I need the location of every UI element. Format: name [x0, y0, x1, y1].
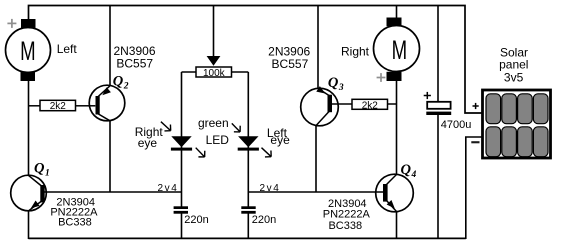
polarity + of left motor — [7, 19, 16, 28]
svg-text:panel: panel — [499, 58, 528, 72]
wire Q3 collector to right 2v4 node — [315, 126, 317, 192]
transistor Q2 2N3906 PNP — [89, 85, 125, 121]
capacitor C3 4700u electrolytic — [426, 102, 471, 131]
svg-text:eye: eye — [270, 133, 290, 147]
wire C1 to ground rail — [181, 212, 183, 239]
svg-text:BC557: BC557 — [272, 57, 309, 71]
wire Q2 emitter to top rail — [109, 6, 111, 87]
svg-text:PN2222A: PN2222A — [323, 209, 371, 221]
motor M1 left — [6, 19, 51, 81]
wire top supply rail (V+ from solar panel) — [29, 6, 482, 114]
wire C3 negative lead to ground rail — [437, 115, 439, 239]
svg-text:2k2: 2k2 — [362, 100, 379, 111]
wire Q3 emitter to top rail — [317, 6, 319, 89]
svg-text:Q: Q — [113, 74, 124, 90]
svg-text:220n: 220n — [184, 214, 208, 226]
svg-text:Right: Right — [341, 44, 370, 58]
svg-text:M: M — [392, 35, 408, 65]
svg-text:Q: Q — [34, 161, 45, 177]
svg-text:4: 4 — [411, 170, 417, 180]
svg-text:100k: 100k — [203, 68, 226, 79]
wire Q4 emitter to ground rail — [396, 212, 398, 239]
light arrows at LED D2 — [229, 120, 275, 160]
svg-text:1: 1 — [45, 169, 50, 179]
svg-text:220n: 220n — [252, 214, 276, 226]
wire Q2 collector to left 2v4 node — [109, 121, 111, 192]
polarity + of solar panel — [473, 103, 479, 109]
wire right motor positive to top rail — [396, 6, 398, 19]
transistor Q1 2N3904 NPN — [11, 175, 47, 211]
wire bottom ground rail — [29, 237, 466, 239]
light arrows at LED D1 — [158, 118, 208, 160]
polarity + of right motor — [377, 73, 386, 82]
polarity + of capacitor C3 — [424, 92, 431, 99]
transistor Q4 2N3904 NPN — [376, 174, 414, 212]
svg-text:green: green — [198, 116, 229, 130]
svg-text:2k2: 2k2 — [50, 101, 67, 112]
svg-text:Q: Q — [328, 75, 339, 91]
wire capacitor C3 positive lead to top rail — [437, 6, 439, 102]
potentiometer 100k — [182, 67, 249, 79]
wire solar panel negative to ground rail — [466, 137, 482, 239]
svg-text:3: 3 — [338, 83, 344, 93]
LED D2 (left eye) — [238, 136, 259, 150]
wire pot wiper from top rail — [213, 6, 215, 58]
transistor Q3 2N3906 PNP — [301, 86, 339, 126]
resistor R1 2k2 left — [29, 100, 90, 112]
svg-text:Left: Left — [57, 42, 78, 56]
svg-text:BC557: BC557 — [116, 56, 153, 70]
LED D1 (right eye) — [171, 136, 192, 150]
resistor R2 2k2 right — [339, 99, 397, 111]
wire right 2v4 node (D2 cathode - Q3 collector - Q4 base) — [248, 191, 384, 193]
capacitor C2 220n — [241, 206, 276, 226]
wire Q1 emitter to ground rail — [28, 211, 30, 239]
solar panel PV1 — [483, 90, 551, 158]
motor M2 right — [374, 18, 420, 82]
wire right motor negative to Q4 collector — [396, 81, 398, 175]
wire left motor to Q1 collector — [28, 81, 30, 175]
svg-text:2v4: 2v4 — [158, 183, 179, 194]
svg-text:eye: eye — [138, 136, 158, 150]
svg-text:4700u: 4700u — [441, 119, 472, 131]
svg-text:BC338: BC338 — [58, 216, 92, 228]
svg-text:3v5: 3v5 — [504, 71, 524, 85]
svg-text:2: 2 — [123, 82, 129, 92]
svg-text:BC338: BC338 — [328, 220, 362, 232]
capacitor C1 220n — [174, 206, 209, 226]
polarity - of solar panel — [471, 141, 479, 143]
svg-text:M: M — [20, 36, 35, 66]
svg-text:Q: Q — [401, 162, 412, 178]
wire C2 to ground rail — [247, 212, 249, 239]
svg-text:2v4: 2v4 — [260, 183, 281, 194]
svg-text:LED: LED — [206, 133, 230, 147]
wire pot right terminal down to LED D2 — [247, 72, 249, 208]
wire pot left terminal down to LED D1 — [181, 72, 183, 208]
wire left 2v4 node (Q1 base - Q2 collector - D1 cathode) — [41, 191, 181, 193]
